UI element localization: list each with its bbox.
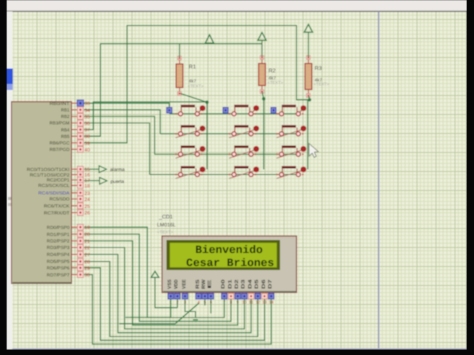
power terminal VCC arrow for LCD VDD	[151, 271, 159, 277]
push button row1 col2	[223, 107, 228, 113]
wire LCD RW stub	[204, 299, 206, 306]
svg-text:39: 39	[84, 141, 90, 147]
svg-text:VEE: VEE	[181, 279, 187, 289]
push button row2 col3	[277, 130, 303, 138]
svg-text:D5: D5	[254, 279, 260, 289]
sheet border (blue frame lines)	[378, 12, 380, 349]
svg-text:RB0/INT: RB0/INT	[50, 101, 70, 106]
LCD pin 12 D5 terminal	[257, 293, 259, 300]
wire keypad row 1 net	[169, 113, 301, 115]
push button row4 col3	[277, 170, 303, 178]
svg-text:26: 26	[84, 211, 90, 217]
svg-text:_CD1: _CD1	[158, 215, 173, 221]
mouse cursor	[309, 144, 318, 158]
resistor R1 4k7	[176, 64, 183, 88]
terminal arrow alarma	[99, 166, 107, 173]
LCD pin 11 D4 terminal	[250, 293, 252, 300]
wire LCD VEE to ground	[185, 299, 196, 317]
svg-text:RW: RW	[201, 279, 207, 289]
wire LCD RS diagonal	[119, 303, 199, 324]
push button row1 col3	[271, 107, 276, 113]
svg-text:R1: R1	[189, 65, 196, 71]
wire RB6 pin39 to column3	[84, 26, 310, 143]
power terminal VCC arrow above R3	[304, 24, 312, 32]
wire RD pin21 to LCD D2	[84, 241, 238, 325]
svg-text:D0: D0	[221, 279, 227, 289]
wire R1 top to VCC rail	[179, 44, 181, 58]
svg-text:RC6/TX/CK: RC6/TX/CK	[44, 204, 70, 209]
svg-text:RD6/PSP6: RD6/PSP6	[47, 266, 70, 271]
svg-text:<TEXT>: <TEXT>	[157, 229, 174, 234]
LCD pin 6 E terminal	[210, 293, 212, 300]
wire pin15 to alarma terminal	[84, 168, 99, 170]
svg-text:RD0/PSP0: RD0/PSP0	[47, 225, 70, 230]
svg-text:<TEXT>: <TEXT>	[188, 84, 204, 89]
svg-text:34: 34	[84, 108, 90, 114]
svg-text:28: 28	[84, 260, 90, 266]
node junction column2 top	[262, 97, 265, 100]
svg-text:30: 30	[84, 273, 90, 279]
svg-text:RD1/PSP1: RD1/PSP1	[47, 232, 70, 237]
svg-text:RD2/PSP2: RD2/PSP2	[47, 239, 70, 244]
svg-text:18: 18	[84, 183, 90, 189]
svg-text:25: 25	[84, 204, 90, 210]
wire RD pin30 to LCD D7	[84, 275, 271, 345]
svg-text:D3: D3	[241, 279, 247, 289]
LCD pin 8 D1 terminal	[230, 293, 232, 300]
wire keypad row 2 net	[160, 133, 301, 135]
push button row2 col1	[176, 130, 202, 138]
svg-text:22: 22	[84, 246, 90, 252]
svg-text:LM016L: LM016L	[157, 223, 176, 229]
wire RB3 pin36 to keypad row4	[84, 123, 150, 175]
svg-text:<TEXT>: <TEXT>	[268, 80, 284, 85]
push button row3 col3	[277, 150, 303, 158]
push button row1 col1	[167, 107, 172, 113]
svg-text:Bienvenido: Bienvenido	[195, 245, 263, 257]
svg-text:24: 24	[84, 197, 90, 203]
LCD pin 4 RS terminal	[198, 293, 200, 300]
resistor R2 4k7	[259, 64, 266, 86]
wire keypad column 1 net	[206, 102, 208, 169]
ground symbol	[191, 318, 200, 322]
node junction column1 top	[205, 101, 208, 104]
svg-text:RD3/PSP3: RD3/PSP3	[47, 245, 70, 250]
svg-text:RC7/RX/DT: RC7/RX/DT	[44, 210, 70, 215]
LCD pin 1 VSS terminal	[170, 293, 172, 300]
svg-text:20: 20	[84, 232, 90, 238]
push button row2 col2	[229, 130, 255, 138]
wire RB1 pin34 to keypad row2	[84, 110, 160, 134]
wire RB2 pin35 to keypad row3	[84, 116, 155, 154]
wire RB5 pin38 to VCC rail / column2	[84, 44, 262, 137]
svg-text:RB6/PGC: RB6/PGC	[50, 141, 71, 146]
svg-text:RC5/SDO: RC5/SDO	[50, 197, 70, 202]
svg-text:VSS: VSS	[167, 279, 173, 289]
svg-text:RC2/CCP1: RC2/CCP1	[47, 178, 70, 183]
wire keypad row 3 net	[155, 153, 301, 155]
svg-text:29: 29	[84, 266, 90, 272]
wire LCD VDD stub	[176, 299, 178, 308]
LCD LCD1 LM016L body	[162, 236, 297, 293]
svg-text:27: 27	[84, 252, 90, 258]
svg-text:RS: RS	[195, 278, 201, 289]
terminal arrow puerta	[100, 177, 108, 184]
LCD screen	[167, 240, 281, 270]
svg-text:R2: R2	[269, 69, 276, 75]
wire RB0 pin33 to keypad row1	[84, 103, 169, 108]
wire R1 bottom diagonal to column1	[181, 94, 208, 103]
svg-text:R3: R3	[315, 66, 322, 72]
svg-text:puerta: puerta	[111, 179, 125, 185]
push button row3 col2	[229, 150, 255, 158]
svg-text:RC3/SCK/SCL: RC3/SCK/SCL	[38, 183, 70, 188]
svg-text:33: 33	[84, 101, 90, 107]
svg-text:23: 23	[84, 191, 90, 197]
svg-text:D7: D7	[268, 279, 274, 289]
svg-text:RC0/T1OSO/T1CKI: RC0/T1OSO/T1CKI	[27, 167, 70, 172]
wire RD pin28 to LCD D5	[84, 262, 258, 337]
svg-text:RC4/SDI/SDA: RC4/SDI/SDA	[38, 191, 69, 196]
wire RD pin29 to LCD D6	[84, 268, 265, 341]
node junction column3 top	[308, 98, 311, 101]
LCD pin 13 D6 terminal	[264, 293, 266, 300]
push button row3 col1	[176, 150, 202, 158]
svg-text:RB7/PGD: RB7/PGD	[50, 147, 71, 152]
svg-text:D1: D1	[227, 279, 233, 289]
microcontroller U1 PIC16F877A body	[12, 102, 72, 284]
svg-text:40: 40	[84, 147, 90, 153]
power terminal VCC arrow above R2	[258, 33, 266, 41]
wire LCD VSS going left	[126, 299, 171, 317]
svg-text:RB5: RB5	[61, 134, 70, 139]
wire keypad row 4 net	[150, 174, 301, 176]
wire R2 bottom to column2	[262, 92, 264, 99]
wire RD pin20 to LCD D1	[84, 234, 231, 321]
power terminal VCC arrow above column1	[205, 35, 213, 43]
svg-text:38: 38	[84, 134, 90, 140]
wire pin17 to puerta terminal	[84, 180, 100, 182]
svg-text:21: 21	[84, 239, 90, 245]
svg-text:RC1/T1OSI/CCP2: RC1/T1OSI/CCP2	[30, 172, 70, 177]
svg-text:RD4/PSP4: RD4/PSP4	[47, 252, 70, 257]
wire R3 bottom to column3 junction	[308, 96, 309, 100]
wire RD pin27 to LCD D4	[84, 254, 251, 332]
LCD pin 5 RW terminal	[204, 293, 206, 300]
svg-text:37: 37	[84, 128, 90, 134]
svg-text:VDD: VDD	[174, 279, 180, 289]
LCD pin 10 D3 terminal	[243, 293, 245, 300]
LCD pin 9 D2 terminal	[237, 293, 239, 300]
svg-text:RB3/PGM: RB3/PGM	[50, 121, 70, 126]
wire RD pin19 to LCD D0	[84, 227, 224, 317]
wire LCD E stub	[210, 299, 212, 314]
svg-text:RB4: RB4	[61, 127, 70, 132]
push button row4 col1	[176, 170, 202, 178]
LCD pin 3 VEE terminal	[184, 293, 186, 300]
svg-text:Cesar Briones: Cesar Briones	[186, 258, 274, 270]
svg-text:RB2: RB2	[61, 114, 70, 119]
wire keypad column 2 net	[263, 99, 265, 170]
svg-text:D4: D4	[247, 279, 253, 289]
svg-text:35: 35	[84, 114, 90, 120]
LCD pin 2 VDD terminal	[176, 293, 178, 300]
svg-text:RD5/PSP5: RD5/PSP5	[47, 259, 70, 264]
wire keypad column 3 net	[307, 100, 309, 170]
svg-text:19: 19	[84, 225, 90, 231]
LCD pin 7 D0 terminal	[223, 293, 225, 300]
svg-text:D2: D2	[234, 279, 240, 289]
LCD pin 14 D7 terminal	[270, 293, 272, 300]
svg-text:<TEXT>: <TEXT>	[314, 82, 330, 87]
svg-text:RD7/PSP7: RD7/PSP7	[47, 272, 70, 277]
resistor R3 4k7	[305, 64, 312, 90]
svg-text:D6: D6	[261, 279, 267, 289]
push button row4 col2	[229, 170, 255, 178]
svg-text:36: 36	[84, 121, 90, 127]
wire RB4 pin37 to column1	[84, 102, 207, 130]
svg-text:RB1: RB1	[61, 108, 70, 113]
wire RD pin22 to LCD D3	[84, 248, 244, 329]
svg-text:alarma: alarma	[110, 167, 125, 173]
